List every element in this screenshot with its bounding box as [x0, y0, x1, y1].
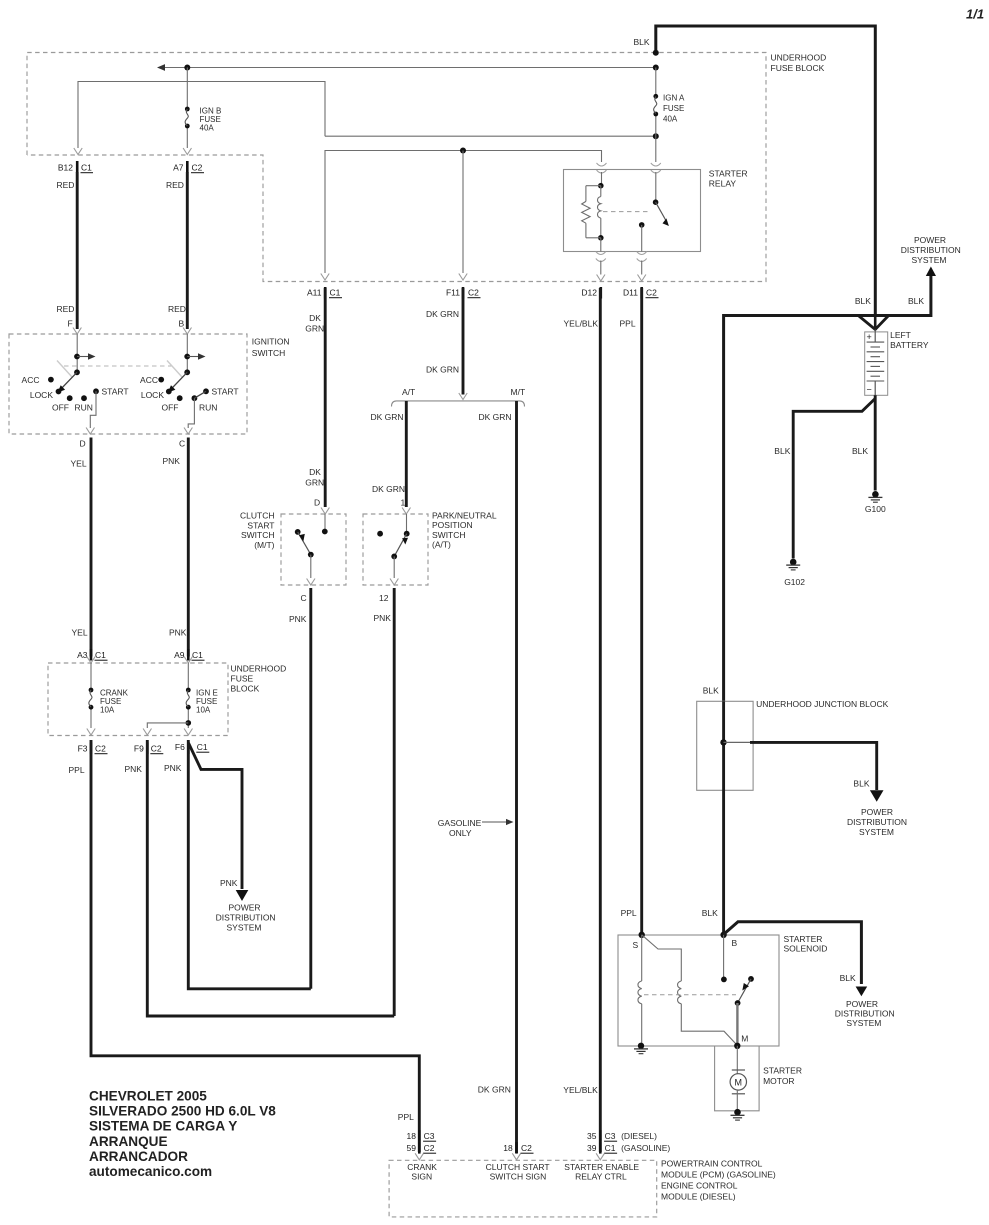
ground: solenoid case — [634, 1043, 648, 1054]
connector arrow ignition F — [73, 328, 81, 335]
svg-text:DISTRIBUTION: DISTRIBUTION — [835, 1009, 895, 1019]
wire: PPL D11 drop to solenoid S (thick) — [640, 288, 643, 934]
wire: A11 DK GRN down to clutch start switch (thick) — [324, 288, 327, 507]
svg-text:CLUTCH START: CLUTCH START — [486, 1162, 550, 1172]
svg-text:SWITCH: SWITCH — [252, 348, 286, 358]
label: STARTER RELAY — [709, 169, 748, 189]
contact OFF right — [162, 395, 183, 412]
connector arcs relay top (coil pin) — [597, 163, 607, 173]
svg-text:automecanico.com: automecanico.com — [89, 1164, 212, 1179]
solenoid actuator dashed link — [644, 994, 736, 996]
svg-text:BLK: BLK — [853, 779, 869, 789]
svg-text:SWITCH: SWITCH — [241, 530, 275, 540]
label: POWERTRAIN CONTROL MODULE (PCM) — [661, 1159, 776, 1202]
label: STARTER ENABLE RELAY CTRL — [564, 1162, 639, 1182]
wire: F11 split spine to A/T and M/T branches — [392, 393, 525, 407]
svg-text:STARTER: STARTER — [709, 169, 748, 179]
label D (clutch switch pin) — [314, 498, 320, 508]
ground G100 — [865, 491, 886, 514]
node: solenoid switch pivot — [735, 1000, 741, 1006]
label 1 (park/neutral pin) — [401, 498, 406, 508]
wire: ignition C output lead — [188, 398, 194, 428]
svg-text:C: C — [179, 439, 185, 449]
node: ignition F feed w/ arrow — [74, 353, 95, 359]
svg-text:BLK: BLK — [908, 296, 924, 306]
connector arrow A7 — [183, 148, 191, 155]
label: POWER DISTRIBUTION SYSTEM (top right) — [901, 235, 961, 265]
label: LEFT BATTERY — [890, 330, 929, 350]
svg-text:C1: C1 — [197, 742, 208, 752]
label PNK (F6 wire) — [164, 763, 182, 773]
node: park/neutral input contact — [404, 531, 410, 537]
svg-text:C2: C2 — [192, 163, 203, 173]
label: UNDERHOOD JUNCTION BLOCK — [756, 699, 889, 709]
label 12 (park/neutral pin) — [379, 593, 389, 603]
svg-text:D: D — [314, 498, 320, 508]
svg-text:LEFT: LEFT — [890, 330, 911, 340]
wire: ignition D output lead — [90, 391, 96, 428]
wire: crank fuse column — [90, 663, 92, 728]
svg-text:C2: C2 — [521, 1143, 532, 1153]
svg-text:BLK: BLK — [855, 296, 871, 306]
wire: solenoid B branch to power dist (thick) — [724, 922, 868, 997]
svg-text:LOCK: LOCK — [141, 390, 164, 400]
svg-text:CRANK: CRANK — [407, 1162, 437, 1172]
svg-text:CHEVROLET 2005: CHEVROLET 2005 — [89, 1089, 207, 1104]
svg-text:RED: RED — [166, 180, 184, 190]
wire: junction block internal drop (thick) — [722, 701, 725, 934]
svg-text:POWER: POWER — [846, 999, 878, 1009]
wire: coil bottom to D12 — [600, 238, 602, 252]
label C (ignition output) — [179, 439, 185, 449]
label YEL/BLK (lower) — [563, 1085, 598, 1095]
svg-text:BLK: BLK — [634, 37, 650, 47]
solenoid switch blade + contact — [738, 976, 754, 1003]
contact START right — [203, 386, 238, 396]
contact (open) park/neutral — [377, 531, 383, 537]
svg-text:18: 18 — [503, 1143, 513, 1153]
svg-text:BLK: BLK — [703, 686, 719, 696]
wire: relay coil lead top — [601, 172, 603, 186]
wire: YEL/BLK D12 long drop to PCM (thick) — [599, 288, 602, 1152]
svg-text:10A: 10A — [196, 705, 211, 714]
svg-text:ACC: ACC — [22, 375, 40, 385]
connector 35 C3 (DIESEL) — [587, 1130, 657, 1142]
label: GASOLINE ONLY w/ arrow — [438, 818, 514, 838]
label BLK (top feed) — [634, 37, 650, 47]
relay switch (blade open) — [639, 199, 669, 227]
svg-text:F3: F3 — [78, 744, 88, 754]
svg-text:C1: C1 — [192, 650, 203, 660]
connector arrow ignition B — [183, 328, 191, 335]
svg-text:D: D — [80, 439, 86, 449]
svg-text:−: − — [867, 385, 872, 395]
svg-text:C: C — [301, 593, 307, 603]
wire: IGN A fuse column — [655, 68, 657, 163]
contact RUN right — [192, 395, 218, 412]
svg-text:D11: D11 — [623, 288, 638, 298]
svg-text:+: + — [867, 332, 872, 342]
solenoid pull-in coil — [638, 981, 642, 1004]
label M/T — [511, 387, 526, 397]
svg-text:POWER: POWER — [914, 235, 946, 245]
label DK GRN (F11 wire) — [426, 309, 459, 319]
PCM dashed box — [389, 1160, 657, 1217]
svg-text:UNDERHOOD: UNDERHOOD — [771, 53, 827, 63]
svg-text:DK GRN: DK GRN — [426, 365, 459, 375]
svg-text:BLK: BLK — [840, 973, 856, 983]
connector D11 C2 — [623, 287, 658, 299]
node: solenoid B terminal — [720, 932, 737, 948]
connector arcs relay bottom (D12) — [596, 252, 606, 262]
battery (LEFT BATTERY) — [865, 330, 888, 396]
label BLK (junction arrow) — [853, 779, 869, 789]
label RED / F above ignition switch — [57, 304, 75, 329]
label: STARTER MOTOR — [763, 1066, 802, 1087]
svg-text:G100: G100 — [865, 504, 886, 514]
svg-text:SYSTEM: SYSTEM — [227, 923, 262, 933]
label PNK (power dist branch) — [220, 878, 238, 888]
connector arrow A11 — [321, 274, 329, 281]
wire: PNK F6 drop and loop to clutch C (thick) — [188, 740, 310, 989]
label: POWER DISTRIBUTION SYSTEM (solenoid) — [835, 999, 895, 1028]
svg-text:12: 12 — [379, 593, 389, 603]
contact LOCK left — [30, 389, 62, 400]
label: POWER DISTRIBUTION SYSTEM (junction) — [847, 807, 907, 837]
node: junction IGN A output — [653, 133, 659, 139]
svg-text:UNDERHOOD JUNCTION BLOCK: UNDERHOOD JUNCTION BLOCK — [756, 699, 889, 709]
svg-text:RUN: RUN — [75, 403, 93, 413]
label DK GRN (F11 wire lower) — [426, 365, 459, 375]
label BLK (battery feed left) — [855, 296, 871, 306]
svg-text:SYSTEM: SYSTEM — [859, 827, 894, 837]
connector arrow PCM clutch entry — [512, 1153, 520, 1160]
svg-text:SOLENOID: SOLENOID — [784, 944, 828, 954]
svg-text:DK GRN: DK GRN — [479, 412, 512, 422]
svg-text:BATTERY: BATTERY — [890, 340, 929, 350]
label: IGNITION SWITCH — [252, 337, 290, 359]
ignition switch dashed box — [9, 334, 247, 434]
svg-text:F11: F11 — [446, 288, 460, 298]
svg-text:SYSTEM: SYSTEM — [846, 1018, 881, 1028]
connector A3 C1 — [77, 649, 107, 661]
label YEL/BLK (D12 wire) — [564, 319, 599, 329]
resistor (relay shunt) — [582, 186, 601, 238]
label PNK (F9 wire) — [125, 764, 143, 774]
connector F6 C1 — [175, 742, 209, 754]
svg-text:ONLY: ONLY — [449, 828, 472, 838]
label DK GRN (A11 wire lower, stacked) — [305, 467, 324, 488]
svg-text:UNDERHOOD: UNDERHOOD — [231, 664, 287, 674]
svg-text:18: 18 — [407, 1131, 417, 1141]
svg-text:39: 39 — [587, 1143, 597, 1153]
svg-text:STARTER: STARTER — [784, 934, 823, 944]
fuse IGN B 40A — [185, 107, 190, 129]
node: solenoid S terminal — [633, 932, 645, 950]
svg-text:FUSE BLOCK: FUSE BLOCK — [771, 63, 825, 73]
label BLK (power dist top right) — [908, 296, 924, 306]
svg-text:POWERTRAIN CONTROL: POWERTRAIN CONTROL — [661, 1159, 763, 1169]
svg-text:ARRANQUE: ARRANQUE — [89, 1134, 168, 1149]
svg-text:(M/T): (M/T) — [254, 540, 274, 550]
svg-text:PNK: PNK — [125, 764, 143, 774]
svg-text:SWITCH SIGN: SWITCH SIGN — [490, 1172, 547, 1182]
svg-text:RELAY: RELAY — [709, 179, 737, 189]
svg-text:F6: F6 — [175, 742, 185, 752]
node: park/neutral common — [391, 554, 397, 560]
wire: IGN B fuse column x=187 — [186, 68, 188, 149]
label PNK (upper) — [163, 456, 181, 466]
wire: RED A7 to ignition B (thick) — [186, 172, 189, 329]
connector arrow ignition D exit — [86, 428, 94, 435]
svg-text:DISTRIBUTION: DISTRIBUTION — [901, 245, 961, 255]
wire: RED B12 to ignition F (thick) — [76, 172, 79, 329]
node: junction BLK feed at dashed edge — [653, 50, 659, 56]
starter relay box — [564, 170, 701, 252]
label: UNDERHOOD FUSE BLOCK (lower) — [231, 664, 287, 694]
svg-text:SYSTEM: SYSTEM — [912, 255, 947, 265]
svg-text:D12: D12 — [581, 288, 597, 298]
label PPL (PCM crank wire) — [398, 1112, 414, 1122]
svg-text:DK GRN: DK GRN — [372, 484, 405, 494]
label: UNDERHOOD FUSE BLOCK — [771, 53, 827, 74]
wire: PNK park/neutral 12 drop (thick) — [393, 588, 396, 1016]
wire: F11 DK GRN down to split (thick) — [462, 288, 465, 395]
svg-text:RELAY CTRL: RELAY CTRL — [575, 1172, 627, 1182]
label RED (B12 wire) — [57, 180, 75, 190]
svg-text:(GASOLINE): (GASOLINE) — [621, 1143, 670, 1153]
label: IGN E FUSE 10A — [196, 689, 218, 715]
connector arrow F11 — [459, 274, 467, 281]
contact ACC right — [140, 375, 164, 385]
svg-text:RED: RED — [57, 180, 75, 190]
connector B12 C1 — [58, 161, 93, 173]
node: junction block tap — [720, 739, 726, 745]
wire: PNK ignition C to A9 (thick) — [187, 438, 190, 657]
contact OFF left — [52, 395, 73, 412]
connector arrow PCM crank entry — [415, 1153, 423, 1160]
svg-text:ENGINE CONTROL: ENGINE CONTROL — [661, 1181, 738, 1191]
svg-text:MODULE (DIESEL): MODULE (DIESEL) — [661, 1192, 736, 1202]
svg-text:IGNITION: IGNITION — [252, 337, 290, 347]
fuse CRANK 10A — [89, 688, 94, 710]
connector arrow ignition C exit — [184, 428, 192, 435]
clutch start switch (M/T) dashed box — [281, 514, 346, 585]
svg-text:MODULE (PCM) (GASOLINE): MODULE (PCM) (GASOLINE) — [661, 1170, 776, 1180]
wire: pull-in coil to case ground — [641, 1004, 643, 1046]
svg-text:LOCK: LOCK — [30, 390, 53, 400]
label: CRANK SIGN — [407, 1162, 437, 1182]
svg-text:G102: G102 — [784, 577, 805, 587]
wire: solenoid S to pull-in coil lead — [641, 935, 643, 981]
title block — [89, 1089, 276, 1180]
svg-text:OFF: OFF — [162, 403, 179, 413]
svg-text:START: START — [247, 520, 274, 530]
svg-text:PPL: PPL — [621, 908, 637, 918]
relay coil K1 — [598, 186, 601, 238]
svg-text:POSITION: POSITION — [432, 520, 473, 530]
svg-text:C2: C2 — [151, 744, 162, 754]
wire: PPL F3 loop to PCM crank sign (thick) — [91, 740, 419, 1152]
connector arrow clutch switch D entry — [321, 508, 329, 515]
wire: relay switch common lead — [655, 172, 657, 202]
svg-text:OFF: OFF — [52, 403, 69, 413]
svg-text:BLK: BLK — [774, 446, 790, 456]
node: coil bottom junction — [598, 235, 604, 241]
wire: battery negative to G100 (thick) — [874, 395, 877, 490]
wire: ignition F internal lead — [76, 334, 78, 372]
svg-text:START: START — [102, 386, 129, 396]
svg-text:PPL: PPL — [69, 765, 85, 775]
svg-text:B12: B12 — [58, 163, 73, 173]
svg-text:START: START — [212, 386, 239, 396]
label DK GRN (A11 wire, stacked) — [305, 313, 324, 334]
label PPL (above solenoid) — [621, 908, 637, 918]
starter motor bracket — [715, 1046, 760, 1111]
svg-text:YEL/BLK: YEL/BLK — [564, 319, 599, 329]
svg-text:PNK: PNK — [220, 878, 238, 888]
svg-text:GRN: GRN — [305, 324, 324, 334]
wire: coil feed rail y=150.5 — [325, 151, 602, 274]
svg-text:ARRANCADOR: ARRANCADOR — [89, 1149, 188, 1164]
svg-text:ACC: ACC — [140, 375, 158, 385]
label DK GRN (A/T branch) — [371, 412, 404, 422]
wire: motor to ground — [736, 1090, 738, 1110]
node: junction bus/IGN B column — [184, 65, 190, 71]
label BLK (G100 wire) — [852, 446, 868, 456]
connector A9 C1 — [174, 649, 204, 661]
wire: IGN A output run y=136 — [325, 135, 656, 137]
svg-text:IGN A: IGN A — [663, 94, 685, 103]
label: POWER DISTRIBUTION SYSTEM (PNK arrow) — [216, 903, 276, 933]
label D (ignition output) — [80, 439, 86, 449]
svg-text:(A/T): (A/T) — [432, 540, 451, 550]
wire: PNK F6 branch to power distribution (thick) — [189, 743, 249, 901]
park/neutral blade — [394, 534, 408, 557]
svg-text:C2: C2 — [646, 288, 657, 298]
label C (clutch switch pin) — [301, 593, 307, 603]
svg-text:YEL: YEL — [71, 459, 87, 469]
ground: starter motor — [731, 1109, 745, 1120]
ignition blade right (to LOCK) — [168, 372, 187, 392]
wire: PNK clutch switch C drop (thick) — [309, 588, 312, 989]
label DK GRN (M/T branch) — [479, 412, 512, 422]
svg-text:1/1: 1/1 — [966, 7, 984, 22]
svg-text:PPL: PPL — [398, 1112, 414, 1122]
connector arrow B12 — [74, 148, 82, 155]
park/neutral position switch dashed box — [363, 514, 428, 585]
connector 59 C2 (crank sign gasoline) — [407, 1142, 437, 1154]
connector arrow D11 — [638, 275, 646, 282]
svg-text:FUSE: FUSE — [663, 104, 684, 113]
svg-text:YEL/BLK: YEL/BLK — [563, 1085, 598, 1095]
svg-text:MOTOR: MOTOR — [763, 1076, 794, 1086]
label DK GRN (lower M/T wire) — [478, 1085, 511, 1095]
connector F3 C2 — [78, 743, 108, 755]
wire: fuse block internal feed bus y=67.5 with left arrow — [157, 64, 656, 71]
svg-text:1: 1 — [401, 498, 406, 508]
svg-text:F9: F9 — [134, 744, 144, 754]
svg-text:RED: RED — [57, 304, 75, 314]
connector arrow A3 entry — [87, 657, 95, 664]
svg-text:C2: C2 — [95, 744, 106, 754]
connector arrow park/neutral 12 exit — [390, 579, 398, 586]
svg-text:DISTRIBUTION: DISTRIBUTION — [216, 913, 276, 923]
wire: D11 drop to fuse block edge — [641, 261, 643, 275]
label: IGN B FUSE 40A — [200, 107, 222, 133]
svg-text:A/T: A/T — [402, 387, 415, 397]
battery positive V-joint — [858, 316, 888, 330]
svg-text:10A: 10A — [100, 705, 115, 714]
svg-text:A7: A7 — [173, 163, 184, 173]
label BLK (above junction block) — [703, 686, 719, 696]
label: STARTER SOLENOID — [784, 934, 828, 954]
wire: battery bus y=315 (thick) — [724, 267, 936, 702]
svg-text:POWER: POWER — [228, 903, 260, 913]
wire: D12 drop to fuse block edge — [600, 261, 602, 275]
connector arrow F3 exit — [87, 729, 95, 736]
svg-text:PNK: PNK — [164, 763, 182, 773]
wire: battery negative branch to G102 (thick) — [793, 399, 875, 559]
connector arrow F9 exit — [143, 729, 151, 736]
svg-text:PNK: PNK — [169, 628, 187, 638]
svg-text:PPL: PPL — [620, 319, 636, 329]
contact START left — [93, 386, 128, 396]
svg-text:DK GRN: DK GRN — [478, 1085, 511, 1095]
svg-text:DK GRN: DK GRN — [371, 412, 404, 422]
wire: solenoid S diagonal to hold-in coil — [642, 935, 682, 981]
svg-text:GRN: GRN — [305, 478, 324, 488]
svg-text:C3: C3 — [605, 1131, 616, 1141]
svg-text:C1: C1 — [605, 1143, 616, 1153]
label PNK (above A9) — [169, 628, 187, 638]
svg-text:GASOLINE: GASOLINE — [438, 818, 482, 828]
node: solenoid B contact — [721, 977, 727, 983]
node: ignition B feed w/ arrow — [184, 353, 205, 359]
svg-text:FUSE: FUSE — [231, 674, 254, 684]
fuse IGN A 40A — [653, 94, 658, 117]
contact LOCK right — [141, 389, 172, 400]
svg-text:S: S — [633, 940, 639, 950]
wire: relay contact to D11 — [641, 225, 643, 252]
fuse IGN E 10A — [186, 688, 191, 710]
svg-text:RED: RED — [168, 304, 186, 314]
contact ACC left — [22, 375, 54, 385]
svg-text:PNK: PNK — [163, 456, 181, 466]
svg-text:YEL: YEL — [72, 628, 88, 638]
connector F9 C2 — [134, 743, 163, 755]
wire: PNK F9 loop up to park/neutral 12 (thick) — [147, 740, 394, 1016]
wire: battery BLK feed (top, thick) — [656, 26, 876, 317]
node: junction rail/F11 — [460, 148, 466, 154]
svg-text:40A: 40A — [663, 115, 678, 124]
node: IGN E output junction — [186, 720, 192, 726]
svg-text:SILVERADO 2500 HD 6.0L V8: SILVERADO 2500 HD 6.0L V8 — [89, 1104, 276, 1119]
underhood junction block box — [697, 701, 753, 790]
ignition mechanical dashed link — [64, 365, 172, 367]
wire: junction block branch to power dist (thick) — [724, 742, 884, 801]
svg-text:SWITCH: SWITCH — [432, 530, 466, 540]
label: CRANK FUSE 10A — [100, 689, 129, 715]
connector A11 C1 — [307, 287, 342, 299]
wire: clutch switch input stub — [324, 514, 326, 532]
svg-text:59: 59 — [407, 1143, 417, 1153]
node: solenoid M terminal — [734, 1034, 748, 1050]
label YEL (above A3) — [72, 628, 88, 638]
node: clutch switch input contact — [322, 529, 328, 535]
contact (open) clutch switch — [295, 529, 301, 535]
node: coil top junction — [598, 183, 604, 189]
